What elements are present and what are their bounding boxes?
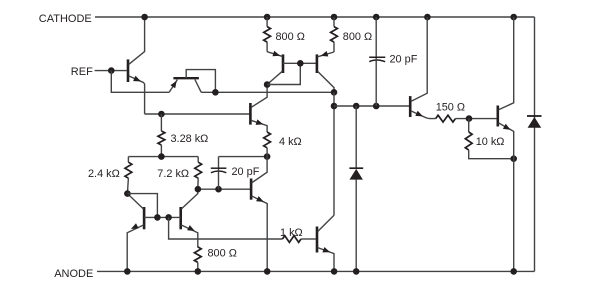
capacitor C2 20 pF	[211, 157, 227, 190]
svg-text:REF: REF	[71, 66, 93, 78]
label R9 value	[436, 101, 465, 113]
resistor R7 4 k	[264, 132, 271, 157]
node 3.28k bottom junction	[158, 153, 165, 160]
node 10k bottom junction	[510, 155, 517, 162]
node D1 top junction	[353, 103, 360, 110]
svg-text:800 Ω: 800 Ω	[208, 247, 237, 259]
node 7.2k bottom junction	[195, 186, 202, 193]
wire Q2-Q4 base tie	[283, 62, 317, 64]
node Q7 base junction	[154, 214, 161, 221]
transistor Q9	[317, 215, 334, 271]
node top rail / Q1 collector	[141, 14, 148, 21]
node anode / Q9 emitter	[331, 268, 338, 275]
resistor R6 800	[194, 247, 201, 272]
node 2.4k bottom junction	[124, 190, 131, 197]
svg-text:CATHODE: CATHODE	[39, 13, 92, 25]
label R2 value	[343, 31, 372, 43]
node 4k bottom junction	[264, 153, 271, 160]
wire right edge cathode-to-anode	[534, 17, 536, 271]
resistor R10 1 k	[282, 236, 301, 243]
svg-text:7.2 kΩ: 7.2 kΩ	[157, 168, 189, 180]
net label CATHODE	[39, 13, 92, 25]
svg-text:800 Ω: 800 Ω	[343, 31, 372, 43]
wire R10 to Q9 base	[301, 238, 316, 240]
wire cathode top rail	[95, 16, 535, 18]
svg-text:4 kΩ: 4 kΩ	[279, 136, 302, 148]
transistor Q5	[250, 85, 267, 133]
diode D1	[349, 106, 363, 271]
wire 7.2k bottom to Q6 base	[198, 188, 251, 190]
label C2 value	[232, 166, 260, 178]
transistor Q11	[410, 17, 435, 119]
node 10k top junction	[466, 115, 473, 122]
node anode / Q7 emitter	[124, 268, 131, 275]
wire Q7-Q8 base tie	[144, 216, 181, 218]
label R3 value	[171, 133, 209, 145]
label R6 value	[208, 247, 237, 259]
node anode / Q6 emitter	[264, 268, 271, 275]
label R5 value	[157, 168, 189, 180]
node anode / D1 anode	[353, 268, 360, 275]
diode D2	[527, 116, 542, 128]
node top rail / R2	[331, 14, 338, 21]
wire REF lead	[95, 70, 127, 72]
node top rail / C1	[373, 14, 380, 21]
node anode / Q10 emitter	[510, 268, 517, 275]
node anode / R6	[195, 268, 202, 275]
label R4 value	[88, 168, 120, 180]
node top rail / R1	[264, 14, 271, 21]
node REF junction	[108, 67, 115, 74]
node C1 bottom junction	[373, 103, 380, 110]
svg-text:3.28 kΩ: 3.28 kΩ	[171, 133, 209, 145]
node Q2/Q4 base junction	[297, 60, 304, 67]
wire anode bottom rail	[97, 270, 535, 272]
label R10 value	[280, 227, 303, 239]
node Q3 collector junction	[212, 89, 219, 96]
node Q2 collector junction	[264, 81, 271, 88]
transistor Q10	[498, 17, 514, 271]
node C2 bottom junction	[215, 186, 222, 193]
svg-text:150 Ω: 150 Ω	[436, 101, 465, 113]
wire Q8 base to R10	[169, 217, 283, 239]
label R1 value	[276, 31, 305, 43]
node Q4 collector junction	[331, 89, 338, 96]
label C1 value	[390, 54, 418, 66]
transistor Q8	[181, 189, 198, 247]
transistor Q7	[127, 194, 144, 272]
svg-text:10 kΩ: 10 kΩ	[476, 136, 505, 148]
label R7 value	[279, 136, 302, 148]
svg-text:20 pF: 20 pF	[232, 166, 260, 178]
resistor R2 800	[331, 17, 338, 52]
transistor Q4	[317, 51, 334, 92]
resistor R9 150	[436, 115, 456, 122]
net label REF	[71, 66, 93, 78]
node top rail / Q10 collector	[510, 14, 517, 21]
label R8 value	[476, 136, 505, 148]
resistor R5 7.2 k	[195, 157, 202, 190]
svg-text:20 pF: 20 pF	[390, 54, 418, 66]
transistor Q6	[251, 157, 267, 272]
wire REF junction down to Q3 emitter	[111, 71, 169, 93]
resistor R8 10 k	[465, 119, 513, 159]
transistor Q3	[169, 70, 215, 93]
node Q8 base junction	[165, 214, 172, 221]
resistor R4 2.4 k	[125, 157, 132, 194]
wire C2 top to 4k bottom	[219, 156, 268, 158]
node 3.28k top junction	[158, 111, 165, 118]
wire 2.4k/3.28k/7.2k tie	[128, 156, 198, 158]
wire Q2/Q4 base diode connection	[267, 63, 300, 84]
wire Q4 collector down to Q9 collector	[333, 92, 335, 215]
wire Q7 diode connection	[127, 194, 157, 218]
resistor R1 800	[264, 17, 271, 52]
svg-text:1 kΩ: 1 kΩ	[280, 227, 303, 239]
transistor Q2	[267, 51, 283, 85]
wire Q3 collector rail	[201, 91, 334, 93]
svg-text:ANODE: ANODE	[54, 268, 93, 280]
svg-text:800 Ω: 800 Ω	[276, 31, 305, 43]
wire Q1 emitter to Q5 base	[145, 113, 250, 115]
node top rail / Q11 collector	[424, 14, 431, 21]
wire gain node to driver base	[334, 105, 410, 107]
net label ANODE	[54, 268, 93, 280]
wire 150 to Q10 base	[455, 118, 497, 120]
svg-text:2.4 kΩ: 2.4 kΩ	[88, 168, 120, 180]
node driver base junction	[331, 103, 338, 110]
capacitor C1 20 pF	[369, 17, 385, 106]
transistor Q1	[128, 17, 145, 114]
resistor R3 3.28 k	[158, 114, 165, 157]
